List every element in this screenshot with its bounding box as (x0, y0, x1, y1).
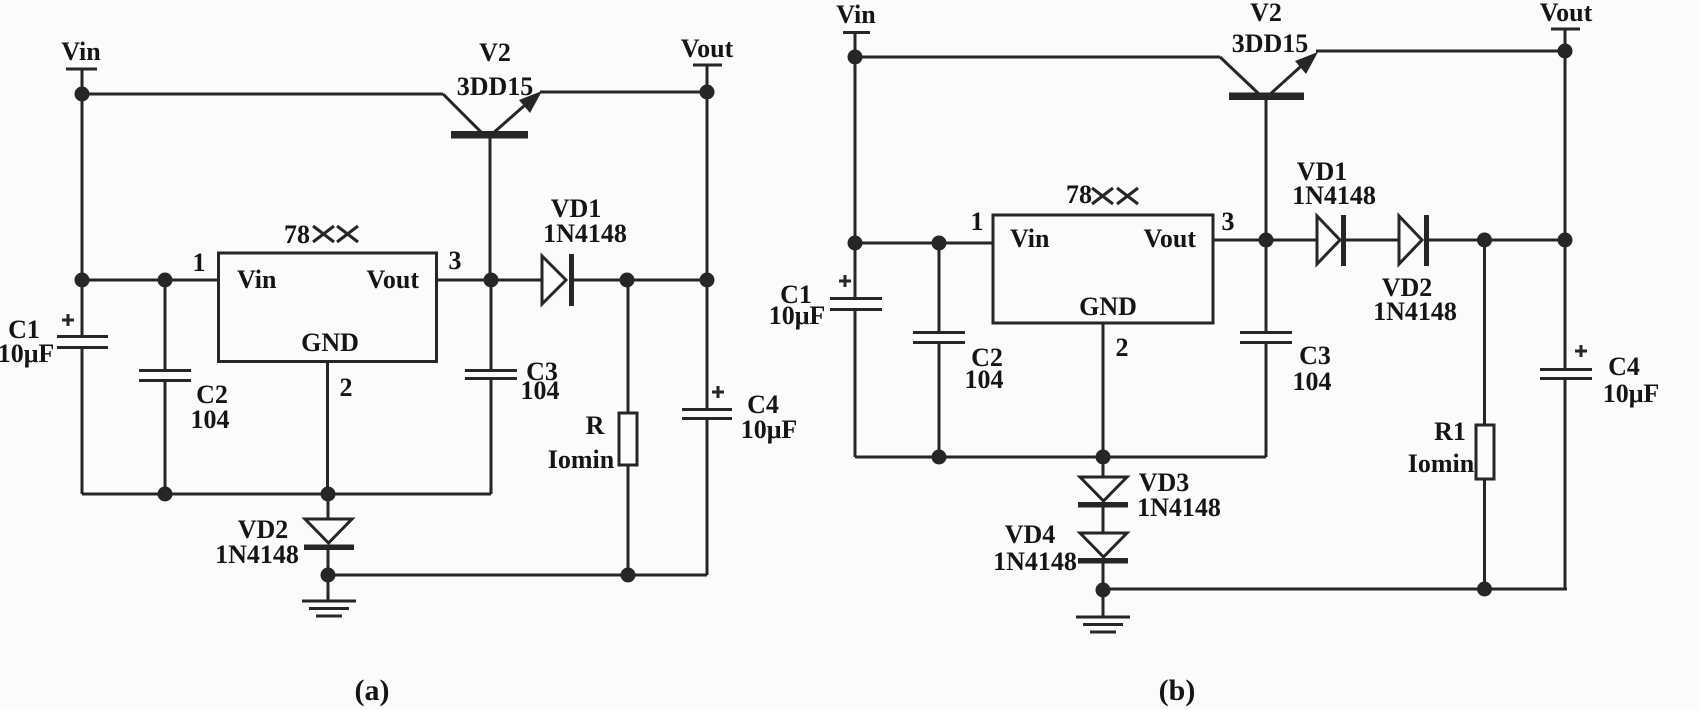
svg-text:10μF: 10μF (741, 415, 798, 444)
regulator U1 78XX box (a) (219, 253, 437, 362)
svg-text:Vin: Vin (237, 265, 277, 294)
wire C1 bottom (a) (81, 348, 84, 494)
label 78XX (a) (284, 220, 358, 249)
junction base/C3 (a) (484, 273, 499, 288)
wire GND pin (b) (1102, 323, 1105, 457)
svg-text:1N4148: 1N4148 (1137, 493, 1221, 522)
wire ground rail (a) (82, 493, 491, 496)
junction Vout top (b) (1558, 44, 1573, 59)
svg-text:Vin: Vin (1010, 224, 1050, 253)
svg-text:2: 2 (340, 373, 353, 402)
svg-text:104: 104 (965, 365, 1004, 394)
ground symbol (a) (302, 575, 356, 616)
svg-text:Vout: Vout (681, 34, 734, 63)
diode VD1 (a) (542, 254, 574, 306)
junction Vin top (a) (75, 87, 90, 102)
capacitor C3 (a) (465, 280, 517, 494)
wire pin3 right (b) (1429, 239, 1565, 242)
svg-text:Vin: Vin (836, 0, 876, 29)
svg-text:Vout: Vout (1540, 0, 1593, 27)
svg-text:1N4148: 1N4148 (215, 540, 299, 569)
svg-text:104: 104 (191, 405, 230, 434)
svg-text:1N4148: 1N4148 (1292, 181, 1376, 210)
node Vin terminal (b) (836, 0, 876, 33)
wire Vin vertical (b) (854, 33, 857, 299)
wire lower rail (b) (1103, 588, 1567, 591)
wire ground rail (b) (855, 456, 1266, 459)
resistor R1 (b) (1476, 240, 1494, 589)
svg-text:3: 3 (449, 246, 462, 275)
wire top rail (a) (82, 93, 443, 96)
svg-text:1N4148: 1N4148 (543, 219, 627, 248)
svg-text:(b): (b) (1159, 674, 1196, 707)
wire pin1 (b) (855, 242, 992, 245)
junction C2 bottom (b) (932, 450, 947, 465)
svg-text:V2: V2 (479, 38, 511, 67)
label 78XX (b) (1066, 180, 1138, 209)
junction R1 top (b) (1477, 233, 1492, 248)
wire pin1 (a) (82, 279, 219, 282)
svg-text:Iomin: Iomin (1408, 449, 1475, 478)
diode VD2 (b) (1399, 215, 1429, 266)
diode VD2 (a) (304, 494, 354, 575)
svg-text:3DD15: 3DD15 (1232, 29, 1309, 58)
junction C2 bottom (a) (158, 487, 173, 502)
regulator U2 78XX box (b) (993, 215, 1213, 323)
junction GND rail (b) (1096, 450, 1111, 465)
svg-text:VD4: VD4 (1005, 520, 1056, 549)
junction C2 top (b) (932, 236, 947, 251)
junction base/C3 (b) (1259, 233, 1274, 248)
junction R bottom (a) (621, 568, 636, 583)
wire top rail right (a) (540, 91, 707, 94)
svg-text:2: 2 (1116, 333, 1129, 362)
svg-text:104: 104 (521, 376, 560, 405)
junction R top (a) (620, 273, 635, 288)
wire between diodes (b) (1346, 239, 1399, 242)
junction Vin pin1 (b) (848, 236, 863, 251)
svg-text:R: R (586, 411, 605, 440)
junction Vout pin3 row (b) (1558, 233, 1573, 248)
junction C2 top (a) (158, 273, 173, 288)
svg-text:104: 104 (1293, 367, 1332, 396)
svg-text:1: 1 (971, 207, 984, 236)
capacitor C1 (b) (830, 275, 882, 457)
resistor R (a) (619, 280, 637, 575)
svg-text:Vout: Vout (366, 265, 419, 294)
svg-text:1N4148: 1N4148 (1373, 297, 1457, 326)
transistor Q V2 (b) (1220, 52, 1318, 100)
capacitor C1 (a) (57, 314, 108, 348)
transistor Q V2 (a) (443, 91, 542, 139)
svg-text:Vin: Vin (61, 37, 101, 66)
wire pin3 left (a) (437, 279, 543, 282)
junction VD2 bottom (a) (321, 568, 336, 583)
junction Vin pin1 (a) (75, 273, 90, 288)
capacitor C3 (b) (1240, 240, 1292, 457)
wire Vout vertical upper (a) (706, 65, 709, 409)
svg-text:10μF: 10μF (769, 301, 826, 330)
wire lower rail (a) (328, 574, 707, 577)
svg-text:GND: GND (1079, 292, 1137, 321)
ground symbol (b) (1076, 590, 1130, 632)
svg-text:78: 78 (1066, 180, 1092, 209)
diode VD1 (b) (1317, 215, 1346, 266)
svg-text:R1: R1 (1434, 417, 1466, 446)
diode VD4 (b) (1078, 533, 1128, 590)
svg-text:C4: C4 (1608, 352, 1640, 381)
capacitor C4 (b) (1540, 345, 1592, 589)
svg-text:Vout: Vout (1143, 224, 1196, 253)
capacitor C2 (b) (913, 243, 965, 457)
junction R1 bottom (b) (1477, 582, 1492, 597)
svg-text:78: 78 (284, 220, 310, 249)
svg-text:10μF: 10μF (1603, 379, 1660, 408)
svg-text:Iomin: Iomin (548, 445, 615, 474)
wire Vin vertical (a) (81, 69, 84, 336)
wire pin3 right (a) (574, 279, 707, 282)
wire GND pin (a) (326, 362, 329, 495)
svg-text:1N4148: 1N4148 (993, 547, 1077, 576)
junction VD4 bottom (b) (1096, 583, 1111, 598)
diode VD3 (b) (1078, 457, 1128, 533)
wire Vout vertical (b) (1564, 29, 1567, 369)
capacitor C4 (a) (682, 386, 732, 575)
wire pin3 left (b) (1213, 239, 1317, 242)
svg-text:1: 1 (193, 248, 206, 277)
svg-text:V2: V2 (1250, 0, 1282, 27)
wire top rail right (b) (1316, 50, 1565, 53)
junction Vin top (b) (848, 50, 863, 65)
svg-text:3: 3 (1222, 207, 1235, 236)
junction Vout pin3 row (a) (700, 273, 715, 288)
node Vin terminal (a) (61, 37, 101, 69)
node Vout terminal (a) (681, 34, 734, 65)
junction Vout top (a) (700, 85, 715, 100)
capacitor C2 (a) (139, 280, 191, 494)
wire top rail (b) (855, 56, 1220, 59)
svg-text:3DD15: 3DD15 (457, 72, 534, 101)
wire base vertical (b) (1265, 100, 1268, 240)
node Vout terminal (b) (1540, 0, 1593, 29)
svg-text:C3: C3 (1299, 341, 1331, 370)
wire base vertical (a) (489, 138, 492, 280)
junction GND rail (a) (321, 487, 336, 502)
svg-text:(a): (a) (355, 674, 390, 707)
svg-text:10μF: 10μF (0, 339, 54, 368)
svg-text:GND: GND (301, 328, 359, 357)
